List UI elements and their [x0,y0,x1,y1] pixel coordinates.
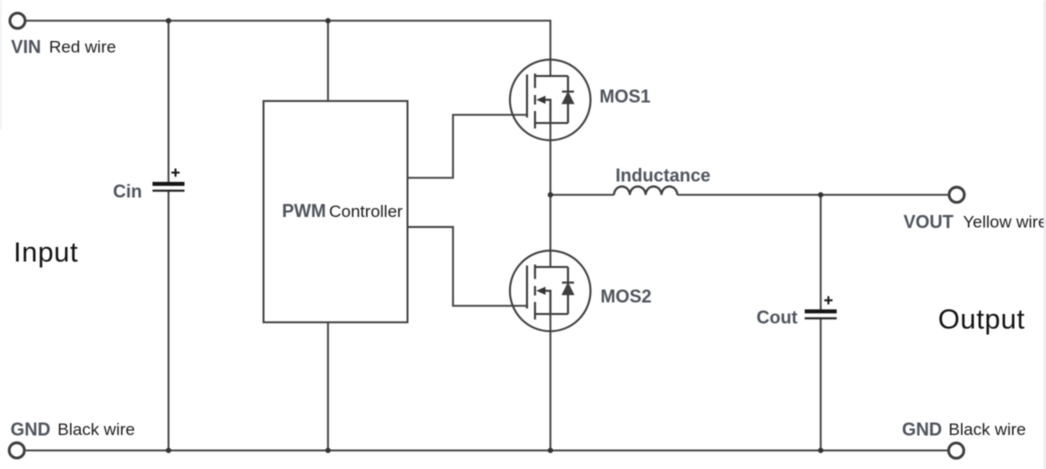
inductor L1 [614,187,677,195]
wire Cin branch upper [168,21,170,182]
node junction top Cin [166,18,171,23]
svg-text:VIN: VIN [11,37,41,57]
capacitor Cout [805,311,837,318]
border edge right [1044,0,1046,469]
op-amp U1 PWM controller box [264,101,408,322]
svg-text:VOUT: VOUT [904,212,954,232]
svg-text:Yellow wire: Yellow wire [963,213,1046,232]
terminal GND left [9,443,24,458]
node junction VOUT Cout [818,192,823,197]
node junction bottom MOS2 [548,448,553,453]
terminal VOUT [949,187,964,202]
svg-text:MOS1: MOS1 [600,87,651,107]
node junction bottom Cin [166,448,171,453]
wire MOS2 source [549,314,551,450]
node junction SW [548,192,553,197]
wire MOS1 source [549,123,551,195]
wire Cout branch upper [820,195,822,310]
wire MOS2 gate [408,227,527,306]
terminal VIN [10,13,25,28]
node junction top PWM [325,18,330,23]
svg-text:Cin: Cin [113,182,142,202]
svg-text:MOS2: MOS2 [601,286,652,306]
svg-text:GND: GND [902,420,942,440]
polarity plus Cin [171,169,179,177]
wire bottom rail GND [26,449,948,451]
svg-text:Red wire: Red wire [49,38,116,57]
svg-text:Input: Input [14,237,79,268]
wire PWM top lead [327,21,329,101]
wire inductor to VOUT [677,194,948,196]
wire node SW to inductor [550,194,614,196]
transistor Q2 MOS2 [510,251,591,332]
capacitor Cin [153,184,185,191]
transistor Q1 MOS1 [510,60,591,141]
svg-text:Black wire: Black wire [949,420,1026,439]
polarity plus Cout [824,296,832,304]
svg-text:PWMController: PWMController [282,201,403,221]
wire Cout branch lower [820,319,822,451]
svg-text:Inductance: Inductance [616,165,711,185]
wire top rail VIN [27,20,551,22]
wire MOS1 drain [549,20,551,76]
wire MOS2 drain [549,195,551,267]
wire PWM bottom lead [327,322,329,450]
svg-text:Cout: Cout [757,308,798,328]
wire Cin branch lower [168,191,170,450]
svg-text:Black wire: Black wire [58,420,135,439]
border edge left [0,0,2,130]
terminal GND right [949,443,964,458]
wire MOS1 gate [408,115,527,178]
node junction bottom Cout [818,448,823,453]
svg-text:Output: Output [938,304,1025,335]
node junction bottom PWM [325,448,330,453]
svg-text:GND: GND [11,420,51,440]
